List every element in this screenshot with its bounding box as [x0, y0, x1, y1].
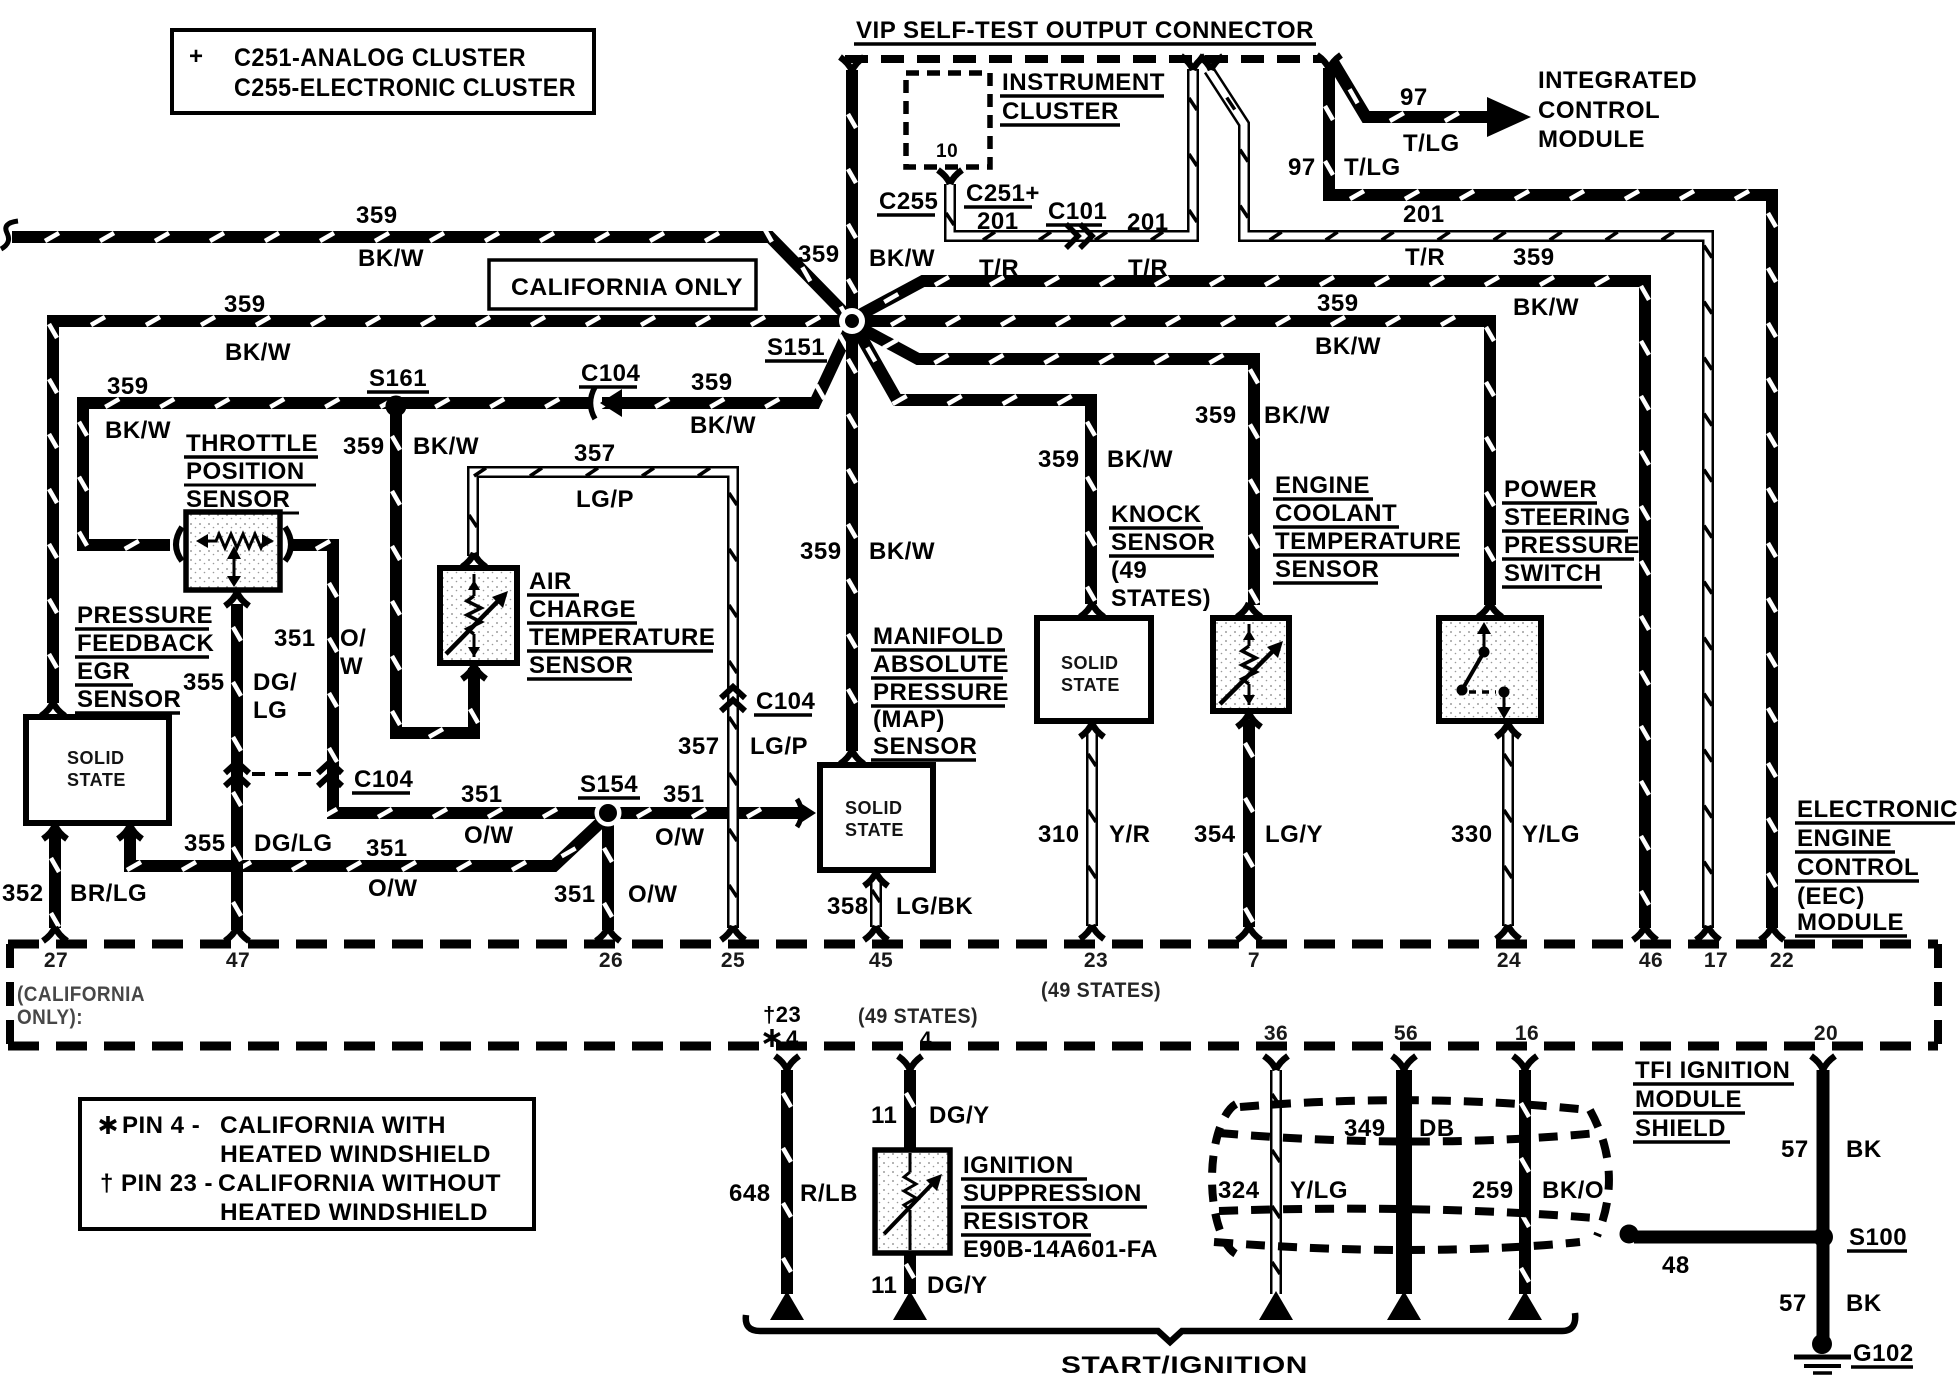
start/ignition brace — [746, 1313, 1575, 1342]
svg-text:359: 359 — [356, 202, 398, 229]
label (49 STATES) pin4 — [858, 1005, 978, 1028]
svg-text:C251-ANALOG CLUSTER: C251-ANALOG CLUSTER — [234, 44, 526, 72]
label ABSOLUTE — [871, 651, 1009, 678]
triangle connector 349 wire — [1387, 1291, 1421, 1320]
label BK/O — [1542, 1177, 1604, 1204]
svg-text:201: 201 — [1127, 209, 1169, 236]
label EEC pin 20 — [1814, 1022, 1838, 1045]
ground G102 — [1794, 1334, 1851, 1373]
label 324 — [1218, 1177, 1260, 1204]
svg-text:TEMPERATURE: TEMPERATURE — [529, 624, 715, 651]
label 357 lower — [678, 733, 720, 760]
svg-text:(MAP): (MAP) — [873, 706, 945, 733]
label 359 map wire — [800, 538, 842, 565]
label SENSOR act — [527, 652, 633, 679]
label EEC pin 7 — [1248, 949, 1260, 972]
svg-text:INSTRUMENT: INSTRUMENT — [1002, 69, 1165, 96]
svg-text:T/LG: T/LG — [1344, 154, 1401, 181]
svg-text:4: 4 — [786, 1026, 799, 1051]
svg-text:SUPPRESSION: SUPPRESSION — [963, 1180, 1142, 1207]
connector EGR sensor top — [41, 702, 65, 716]
label (49 knock — [1111, 557, 1147, 584]
svg-text:STATE: STATE — [67, 770, 126, 790]
label DG/LG horiz — [254, 830, 333, 857]
label 358 — [827, 893, 869, 920]
label 359 left3 — [107, 373, 149, 400]
label Y/R — [1109, 821, 1151, 848]
label 351 egr — [366, 835, 408, 862]
connector VIP pin (201 wire b) — [1199, 56, 1223, 70]
svg-text:ENGINE: ENGINE — [1797, 825, 1892, 852]
splice S151 — [839, 308, 865, 334]
label 48 — [1662, 1252, 1690, 1279]
connector C104 on 355 wire — [225, 762, 249, 786]
label 201 a — [977, 208, 1019, 235]
label 359 left2 — [224, 291, 266, 318]
label EEC pin 45 — [869, 949, 893, 972]
svg-text:BK/W: BK/W — [358, 245, 424, 272]
svg-text:BK/W: BK/W — [1264, 402, 1330, 429]
connector EEC pin 56 — [1392, 1056, 1416, 1070]
label VIP SELF-TEST OUTPUT CONNECTOR — [854, 17, 1316, 44]
svg-text:ABSOLUTE: ABSOLUTE — [873, 651, 1009, 678]
svg-text:S151: S151 — [767, 334, 825, 361]
label AIR — [527, 568, 579, 595]
connector ACT sensor top — [462, 553, 486, 567]
wire 57 BK EEC pin 20 to S100 — [1817, 1070, 1830, 1230]
svg-text:Y/LG: Y/LG — [1290, 1177, 1348, 1204]
wire 358 LG/BK MAP sensor to EEC pin 45 — [872, 878, 880, 927]
connector MAP sensor top — [840, 750, 864, 764]
svg-text:10: 10 — [936, 141, 958, 162]
triangle connector 324 wire — [1259, 1291, 1293, 1320]
svg-text:S161: S161 — [369, 365, 427, 392]
svg-text:RESISTOR: RESISTOR — [963, 1208, 1089, 1235]
label INSTRUMENT — [1000, 69, 1165, 96]
label LG/BK — [896, 893, 973, 920]
label 349 — [1344, 1115, 1386, 1142]
wire 359 BK/W S151 to ECT sensor — [855, 325, 1258, 605]
svg-text:(CALIFORNIA: (CALIFORNIA — [17, 983, 145, 1006]
svg-text:48: 48 — [1662, 1252, 1690, 1279]
label ENGINE — [1273, 472, 1373, 499]
label MODULE tfi — [1633, 1086, 1745, 1113]
svg-text:330: 330 — [1451, 821, 1493, 848]
svg-text:45: 45 — [869, 949, 893, 972]
label EEC pin 22 — [1770, 949, 1794, 972]
air charge temperature sensor box — [440, 568, 517, 663]
label 355 vert — [183, 669, 225, 696]
wire 349 DB EEC pin 56 to start/ignition — [1396, 1070, 1412, 1294]
svg-text:359: 359 — [1195, 402, 1237, 429]
connector EEC pin 7 — [1237, 926, 1261, 940]
svg-text:7: 7 — [1248, 949, 1260, 972]
connector EEC pin 45 — [864, 926, 888, 940]
svg-text:MANIFOLD: MANIFOLD — [873, 623, 1004, 650]
svg-text:11: 11 — [871, 1272, 897, 1299]
label EEC pin 47 — [226, 949, 250, 972]
svg-text:T/R: T/R — [979, 255, 1019, 282]
svg-text:STATE: STATE — [845, 820, 904, 840]
label 97 arrow — [1400, 84, 1428, 111]
svg-text:MODULE: MODULE — [1797, 909, 1904, 936]
wire 97 T/LG branch to integrated control module — [1333, 62, 1487, 121]
label KNOCK — [1109, 501, 1203, 528]
connector knock sensor top — [1080, 603, 1104, 617]
connector ECT sensor bottom — [1237, 713, 1261, 727]
svg-text:LG/Y: LG/Y — [1265, 821, 1323, 848]
label CHARGE — [527, 596, 637, 623]
svg-text:BK: BK — [1846, 1136, 1882, 1163]
svg-text:355: 355 — [183, 669, 225, 696]
svg-text:PIN 4 -: PIN 4 - — [122, 1112, 200, 1139]
C104 dashed link between connectors — [252, 772, 316, 776]
connector PSP switch bottom — [1496, 723, 1520, 737]
svg-text:PRESSURE: PRESSURE — [873, 679, 1009, 706]
label C104 on 359 — [579, 360, 641, 387]
label 359 topleft — [356, 202, 398, 229]
label SENSOR knock — [1109, 529, 1215, 556]
TPS right connector — [285, 527, 291, 561]
label EEC pin 36 — [1264, 1022, 1288, 1045]
connector EEC pin 36 — [1264, 1056, 1288, 1070]
svg-text:IGNITION: IGNITION — [963, 1152, 1074, 1179]
svg-text:W: W — [340, 653, 363, 680]
label EEC pin 26 — [599, 949, 623, 972]
svg-text:357: 357 — [678, 733, 720, 760]
svg-text:C251+: C251+ — [966, 180, 1040, 207]
label EEC pin 23 — [1084, 949, 1108, 972]
svg-text:324: 324 — [1218, 1177, 1260, 1204]
label S161 — [367, 365, 429, 392]
label 351 vert — [274, 625, 316, 652]
svg-text:BK/W: BK/W — [1107, 446, 1173, 473]
label LG/P lower — [750, 733, 808, 760]
svg-text:BK/W: BK/W — [1315, 333, 1381, 360]
label EGR — [75, 658, 133, 685]
label 351 pin26 — [554, 881, 596, 908]
label PRESSURE psp — [1502, 532, 1640, 559]
connector MAP sensor bottom — [864, 872, 888, 886]
svg-text:BK/W: BK/W — [1513, 294, 1579, 321]
svg-text:351: 351 — [366, 835, 408, 862]
wire 352 BR/LG EGR to EEC pin 27 — [51, 830, 59, 928]
wire 355 DG/LG TPS wiper to EEC pin 47 — [233, 604, 241, 930]
label S154 — [578, 771, 640, 798]
label 4 — [920, 1028, 932, 1051]
svg-text:259: 259 — [1472, 1177, 1514, 1204]
label C101 — [1046, 198, 1107, 225]
label star4 — [764, 1026, 799, 1051]
svg-text:SOLID: SOLID — [67, 748, 125, 768]
TPS left connector — [176, 527, 182, 561]
label 357 — [574, 440, 616, 467]
connector EEC pin 47 — [225, 927, 249, 941]
label MANIFOLD — [871, 623, 1005, 650]
connector PSP switch top — [1478, 603, 1502, 617]
label COOLANT — [1273, 500, 1399, 527]
label BK/W ect wire — [1264, 402, 1330, 429]
svg-text:T/R: T/R — [1405, 244, 1445, 271]
label SENSOR map — [871, 733, 977, 760]
svg-text:DB: DB — [1419, 1115, 1455, 1142]
svg-text:C255-ELECTRONIC CLUSTER: C255-ELECTRONIC CLUSTER — [234, 74, 576, 102]
connector VIP pin (201 wire a) — [1181, 56, 1205, 70]
svg-text:R/LB: R/LB — [800, 1180, 858, 1207]
label SWITCH — [1502, 560, 1602, 587]
label EEC pin 25 — [721, 949, 745, 972]
svg-text:SOLID: SOLID — [1061, 653, 1119, 673]
svg-text:47: 47 — [226, 949, 250, 972]
svg-text:STATES): STATES) — [1111, 585, 1211, 612]
VIP self-test output connector dashed line — [845, 55, 1322, 63]
label DG/ vert — [253, 669, 297, 696]
svg-text:HEATED WINDSHIELD: HEATED WINDSHIELD — [220, 1141, 491, 1168]
wire 201 T/R VIP connector to EEC pin 17 — [1209, 70, 1712, 928]
svg-text:KNOCK: KNOCK — [1111, 501, 1202, 528]
label EEC pin 17 — [1704, 949, 1728, 972]
arrow to integrated control module — [1487, 97, 1531, 137]
label START/IGNITION — [1061, 1352, 1308, 1376]
label O/W c104s154 — [464, 822, 514, 849]
connector instrument cluster pin 10 — [938, 170, 962, 184]
connector C104 on 351 wire — [318, 762, 342, 786]
svg-text:STEERING: STEERING — [1504, 504, 1631, 531]
svg-text:310: 310 — [1038, 821, 1080, 848]
label 97 vertical — [1288, 154, 1316, 181]
svg-text:DG/LG: DG/LG — [254, 830, 333, 857]
svg-text:SHIELD: SHIELD — [1635, 1115, 1726, 1142]
connector ACT sensor bottom — [462, 665, 486, 679]
label ELECTRONIC — [1795, 796, 1958, 823]
svg-text:SENSOR: SENSOR — [529, 652, 633, 679]
connector EEC pin 4 — [898, 1056, 922, 1070]
label C255 — [877, 188, 938, 215]
svg-text:359: 359 — [107, 373, 149, 400]
label (49 STATES) pin23 — [1041, 979, 1161, 1002]
svg-text:T/R: T/R — [1128, 255, 1168, 282]
instrument cluster pin 10 dashed box — [906, 73, 990, 167]
svg-text:INTEGRATED: INTEGRATED — [1538, 67, 1697, 94]
label LG/Y — [1265, 821, 1323, 848]
label C251+ — [964, 180, 1040, 207]
connector knock sensor bottom — [1080, 723, 1104, 737]
label EEC pin 27 — [44, 949, 68, 972]
connector EEC pin 25 — [721, 926, 745, 940]
MAP left male connector — [797, 799, 816, 827]
power steering pressure switch box — [1439, 618, 1541, 721]
svg-text:DG/Y: DG/Y — [927, 1272, 988, 1299]
svg-text:BR/LG: BR/LG — [70, 880, 147, 907]
svg-text:11: 11 — [871, 1102, 897, 1129]
connector EEC pin 16 — [1513, 1056, 1537, 1070]
label Y/LG psp — [1522, 821, 1580, 848]
wire 48 TFI shield to S100 — [1634, 1231, 1816, 1244]
svg-text:20: 20 — [1814, 1022, 1838, 1045]
wire 310 Y/R knock sensor to EEC pin 23 — [1088, 730, 1096, 926]
label 359 ect wire — [1195, 402, 1237, 429]
label T/LG arrow — [1403, 130, 1460, 157]
label EEC pin 46 — [1639, 949, 1663, 972]
label W vert — [340, 653, 363, 680]
wire 259 BK/O EEC pin 16 to start/ignition — [1521, 1070, 1529, 1294]
label 352 — [2, 880, 44, 907]
label 11 lower — [871, 1272, 897, 1299]
label EEC pin 24 — [1497, 949, 1521, 972]
svg-text:S154: S154 — [580, 771, 638, 798]
wire 11 DG/Y ignition resistor to start/ignition — [906, 1251, 914, 1294]
label 57 lower — [1779, 1290, 1807, 1317]
label T/R c — [1405, 244, 1445, 271]
svg-text:57: 57 — [1781, 1136, 1809, 1163]
label O/W egr — [368, 875, 418, 902]
svg-text:LG: LG — [253, 697, 287, 724]
svg-text:27: 27 — [44, 949, 68, 972]
svg-text:SOLID: SOLID — [845, 798, 903, 818]
svg-text:SENSOR: SENSOR — [77, 686, 181, 713]
svg-text:(EEC): (EEC) — [1797, 883, 1865, 910]
wire 359 BK/W top-left horizontal to S151 — [12, 228, 852, 321]
connector TPS bottom — [225, 592, 249, 606]
label 351 c104s154 — [461, 781, 503, 808]
label BK/W knock wire — [1107, 446, 1173, 473]
connector EGR sensor bottom left — [43, 825, 67, 839]
connector EEC pin t23 — [775, 1056, 799, 1070]
svg-text:57: 57 — [1779, 1290, 1807, 1317]
label MODULE eec — [1795, 909, 1907, 936]
label O/W pin26 — [628, 881, 678, 908]
svg-text:COOLANT: COOLANT — [1275, 500, 1397, 527]
wire hook left edge — [1, 221, 18, 249]
connector VIP pin (main 359 wire) — [840, 57, 864, 71]
label 359 psp wire — [1317, 290, 1359, 317]
label C104 357 — [754, 688, 816, 715]
svg-text:S100: S100 — [1849, 1224, 1907, 1251]
svg-text:LG/P: LG/P — [750, 733, 808, 760]
svg-text:STATE: STATE — [1061, 675, 1120, 695]
label T/R a — [979, 255, 1019, 282]
svg-text:201: 201 — [1403, 201, 1445, 228]
svg-text:O/W: O/W — [628, 881, 678, 908]
label S100 — [1847, 1224, 1907, 1251]
svg-text:359: 359 — [691, 369, 733, 396]
svg-text:648: 648 — [729, 1180, 771, 1207]
svg-text:46: 46 — [1639, 949, 1663, 972]
connector EEC pin 27 — [43, 927, 67, 941]
label BK/W psp wire — [1315, 333, 1381, 360]
label PRESSURE egr — [75, 602, 213, 629]
label ONLY) — [17, 1006, 83, 1029]
wire 97 T/LG VIP to EEC pin 22 — [1325, 68, 1776, 928]
label POWER — [1502, 476, 1597, 503]
splice S161 — [386, 396, 407, 417]
svg-text:TFI IGNITION: TFI IGNITION — [1635, 1057, 1790, 1084]
svg-text:THROTTLE: THROTTLE — [186, 430, 318, 457]
label 310 — [1038, 821, 1080, 848]
svg-text:SENSOR: SENSOR — [873, 733, 977, 760]
svg-text:E90B-14A601-FA: E90B-14A601-FA — [963, 1236, 1158, 1263]
svg-text:POSITION: POSITION — [186, 458, 305, 485]
connector EGR sensor bottom right — [118, 825, 142, 839]
svg-text:PRESSURE: PRESSURE — [77, 602, 213, 629]
svg-text:VIP SELF-TEST OUTPUT CONNECTOR: VIP SELF-TEST OUTPUT CONNECTOR — [856, 17, 1314, 44]
label TEMPERATURE ect — [1273, 528, 1461, 555]
triangle connector 11 wire — [893, 1291, 927, 1320]
svg-text:351: 351 — [461, 781, 503, 808]
svg-text:BK/W: BK/W — [690, 412, 756, 439]
svg-text:351: 351 — [554, 881, 596, 908]
svg-text:359: 359 — [800, 538, 842, 565]
wire 351 O/W TPS to S154 via C104 — [293, 541, 597, 817]
label BK lower — [1846, 1290, 1882, 1317]
pressure feedback EGR sensor box (solid state) — [26, 717, 169, 823]
svg-text:C101: C101 — [1048, 198, 1107, 225]
label TFI IGNITION — [1633, 1057, 1794, 1084]
svg-text:97: 97 — [1400, 84, 1428, 111]
connector C101 on 201 wire — [1066, 224, 1092, 248]
svg-text:FEEDBACK: FEEDBACK — [77, 630, 215, 657]
svg-text:MODULE: MODULE — [1635, 1086, 1742, 1113]
svg-text:DG/: DG/ — [253, 669, 297, 696]
triangle connector 259 wire — [1508, 1291, 1542, 1320]
svg-text:359: 359 — [224, 291, 266, 318]
svg-text:SWITCH: SWITCH — [1504, 560, 1602, 587]
wire 359 BK/W S151 to EEC pin 46 — [856, 277, 1649, 928]
TFI ignition module shield cylinder — [1212, 1100, 1609, 1254]
label EEC pin 56 — [1394, 1022, 1418, 1045]
label FEEDBACK — [75, 630, 215, 657]
label STEERING — [1502, 504, 1631, 531]
svg-text:C104: C104 — [581, 360, 641, 387]
label 355 horiz — [184, 830, 226, 857]
svg-text:25: 25 — [721, 949, 745, 972]
svg-text:DG/Y: DG/Y — [929, 1102, 990, 1129]
svg-text:17: 17 — [1704, 949, 1728, 972]
label BK/W map wire — [869, 538, 935, 565]
wire 648 R/LB EEC pin t23 to start/ignition — [783, 1070, 791, 1294]
svg-text:(49 STATES): (49 STATES) — [1041, 979, 1161, 1002]
svg-text:C255: C255 — [879, 188, 938, 215]
label (CALIFORNIA — [17, 983, 145, 1006]
svg-text:C104: C104 — [756, 688, 816, 715]
svg-text:SENSOR: SENSOR — [1275, 556, 1379, 583]
svg-text:BK/W: BK/W — [413, 433, 479, 460]
connector EEC pin 24 — [1496, 925, 1520, 939]
label Y/LG 324 — [1290, 1177, 1348, 1204]
svg-text:(49 STATES): (49 STATES) — [858, 1005, 978, 1028]
label DG/Y lower — [927, 1272, 988, 1299]
label CONTROL eec — [1795, 854, 1919, 881]
connector EEC pin 20 — [1811, 1056, 1835, 1070]
svg-text:22: 22 — [1770, 949, 1794, 972]
connector VIP pin (97 wire) — [1317, 55, 1341, 69]
label 359 main top — [798, 241, 840, 268]
svg-text:HEATED WINDSHIELD: HEATED WINDSHIELD — [220, 1199, 488, 1226]
svg-text:352: 352 — [2, 880, 44, 907]
svg-text:+: + — [189, 43, 204, 70]
svg-text:CALIFORNIA WITHOUT: CALIFORNIA WITHOUT — [218, 1170, 501, 1197]
svg-text:24: 24 — [1497, 949, 1521, 972]
label EEC pin 16 — [1515, 1022, 1539, 1045]
connector ECT sensor top — [1237, 603, 1261, 617]
svg-text:BK/W: BK/W — [105, 417, 171, 444]
label SENSOR egr — [75, 686, 181, 713]
svg-text:SENSOR: SENSOR — [186, 486, 290, 513]
svg-text:TEMPERATURE: TEMPERATURE — [1275, 528, 1461, 555]
wire 359 BK/W S151 left to EGR sensor — [49, 317, 858, 703]
connector C104 on 357 wire — [721, 687, 745, 711]
label BK/W s161 — [413, 433, 479, 460]
